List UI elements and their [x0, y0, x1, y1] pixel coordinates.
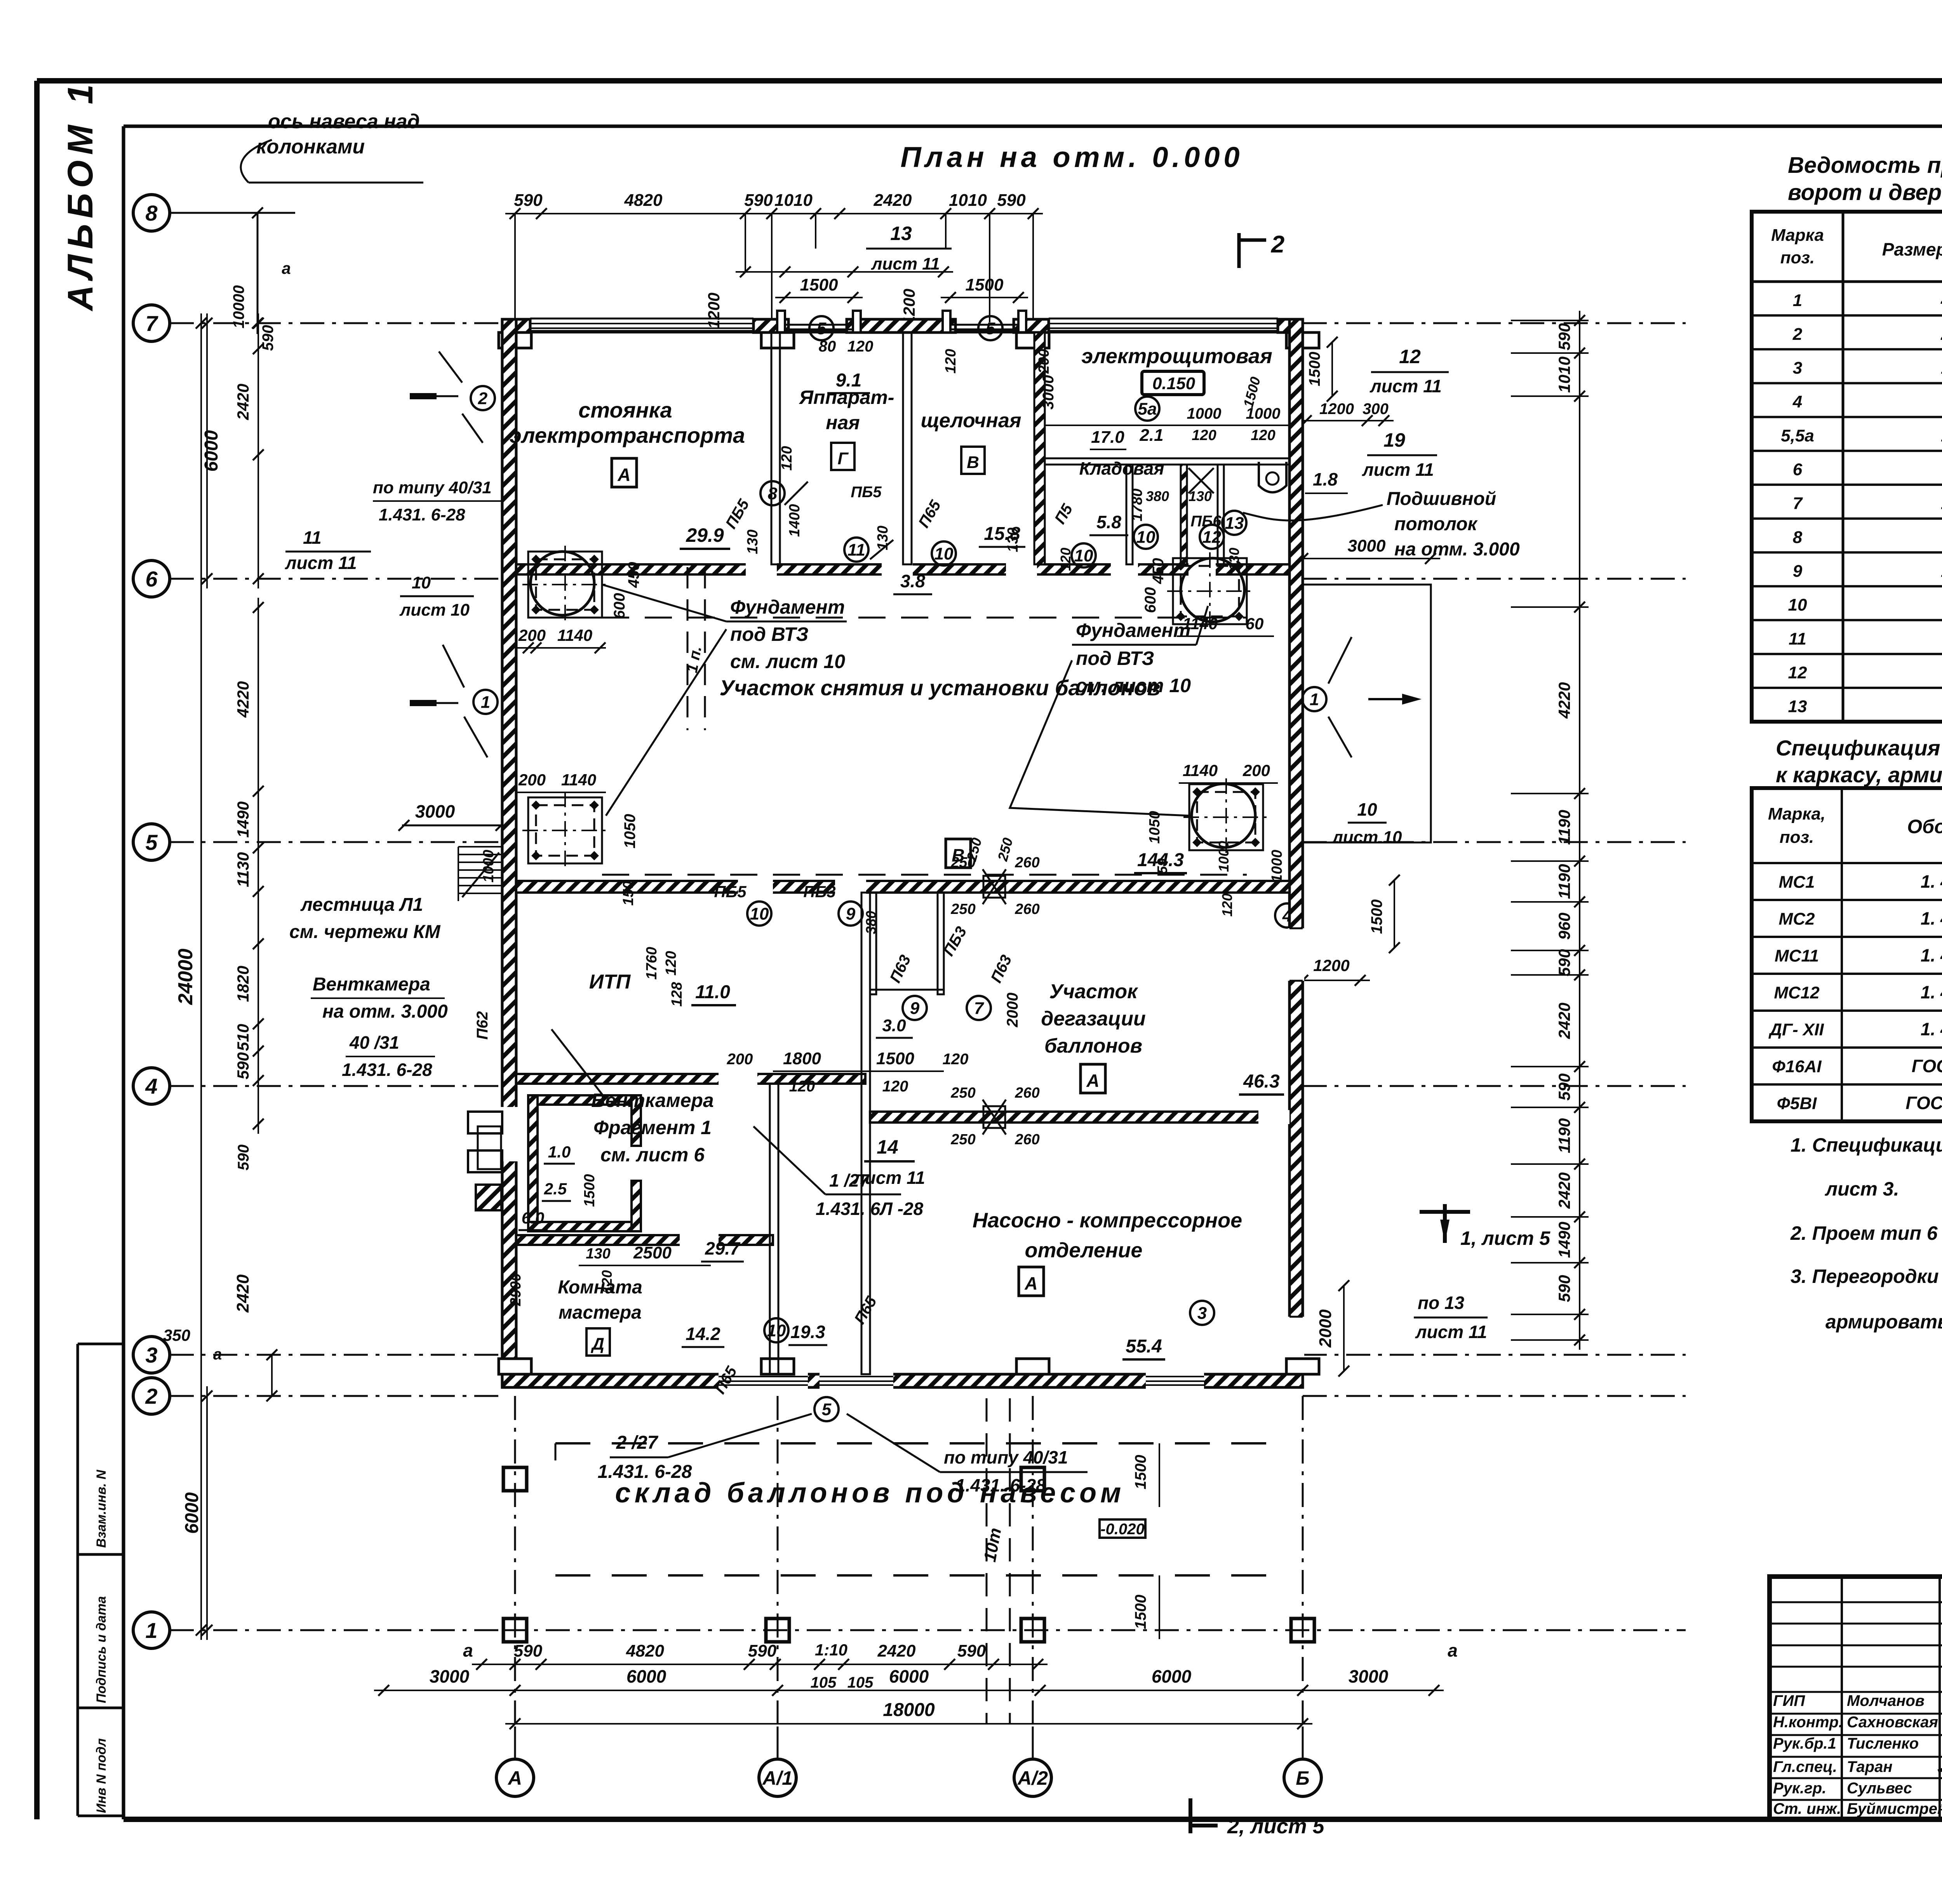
svg-text:13: 13: [1788, 697, 1807, 716]
svg-text:лист 3.: лист 3.: [1825, 1178, 1899, 1200]
svg-text:1. 431. 6 -28: 1. 431. 6 -28: [1921, 982, 1942, 1002]
svg-text:9: 9: [1793, 562, 1803, 581]
axis lines: [170, 212, 295, 214]
svg-text:450: 450: [1150, 558, 1167, 585]
svg-text:5: 5: [822, 1400, 832, 1419]
stairs outside: [458, 846, 502, 848]
svg-text:450: 450: [625, 562, 642, 588]
svg-text:лестница Л1: лестница Л1: [300, 895, 423, 915]
svg-text:120: 120: [1219, 893, 1235, 917]
svg-text:1.431. 6Л -28: 1.431. 6Л -28: [816, 1199, 924, 1219]
svg-text:2420 × 2400: 2420 × 2400: [1940, 325, 1942, 344]
svg-text:1010: 1010: [949, 191, 987, 210]
svg-text:1000: 1000: [1187, 405, 1222, 422]
svg-text:электрощитовая: электрощитовая: [1081, 345, 1272, 368]
svg-text:0.150: 0.150: [1152, 374, 1195, 393]
svg-text:Ст. инж.: Ст. инж.: [1773, 1800, 1841, 1817]
svg-text:см. лист 10: см. лист 10: [1076, 675, 1191, 696]
column marks degazatsiya: [983, 869, 1006, 904]
svg-text:дегазации: дегазации: [1041, 1008, 1146, 1030]
svg-text:380: 380: [1146, 488, 1169, 504]
svg-text:130: 130: [586, 1246, 610, 1262]
svg-text:-0.020: -0.020: [1100, 1521, 1144, 1538]
bottom wall gates: [719, 1373, 808, 1389]
svg-text:3000: 3000: [430, 1666, 470, 1686]
svg-text:отделение: отделение: [1025, 1239, 1143, 1262]
svg-text:ПБ5: ПБ5: [714, 882, 747, 901]
top wall gate portals: [777, 311, 785, 332]
svg-text:Буймистренко: Буймистренко: [1847, 1800, 1942, 1817]
table vedomost proemov grid: [1752, 212, 1942, 722]
svg-text:3: 3: [145, 1343, 157, 1367]
porch rects outside left wall: [468, 1112, 502, 1133]
svg-text:1130: 1130: [234, 852, 252, 887]
svg-text:4: 4: [145, 1074, 157, 1098]
svg-text:6000: 6000: [182, 1492, 202, 1534]
building bottom wall: [502, 1374, 1303, 1387]
svg-text:лист 11: лист 11: [1369, 376, 1442, 396]
svg-text:590: 590: [1555, 323, 1573, 350]
svg-text:1000: 1000: [1269, 850, 1285, 883]
bottom chain total: [505, 1723, 1312, 1725]
svg-text:5,5а: 5,5а: [1781, 426, 1814, 445]
svg-text:5: 5: [145, 830, 158, 855]
partition kladovaya walls: [1126, 465, 1133, 564]
svg-text:250: 250: [950, 1131, 975, 1148]
svg-text:3000: 3000: [1040, 375, 1057, 410]
crane axis: [986, 1398, 988, 1725]
svg-text:200: 200: [1242, 761, 1270, 780]
svg-text:2 /27: 2 /27: [616, 1432, 659, 1453]
svg-text:Марка,: Марка,: [1768, 804, 1825, 823]
svg-text:2500: 2500: [633, 1243, 672, 1262]
svg-text:3000: 3000: [415, 801, 455, 821]
svg-text:2: 2: [145, 1384, 157, 1408]
svg-text:мастера: мастера: [559, 1302, 642, 1323]
svg-text:Молчанов: Молчанов: [1847, 1692, 1925, 1709]
svg-text:поз.: поз.: [1780, 828, 1814, 847]
partition shchelochnaya right: [1034, 332, 1045, 564]
svg-text:1190: 1190: [1555, 810, 1573, 845]
svg-text:Венткамера: Венткамера: [591, 1089, 713, 1111]
svg-text:19: 19: [1383, 429, 1405, 451]
svg-text:Фундамент: Фундамент: [1076, 620, 1190, 641]
svg-text:2420: 2420: [233, 1274, 252, 1313]
svg-text:Сахновская: Сахновская: [1847, 1714, 1938, 1731]
svg-text:7: 7: [974, 999, 985, 1018]
svg-text:1:10: 1:10: [815, 1641, 847, 1659]
top chain: [505, 213, 1043, 214]
svg-text:2.1: 2.1: [1139, 426, 1163, 445]
svg-text:1140: 1140: [557, 626, 592, 644]
WC fixture: [1259, 462, 1286, 493]
axis row labels (left): [133, 195, 170, 231]
svg-text:4220: 4220: [1555, 682, 1573, 719]
svg-text:2. Проем тип 6 и перемычки: 2. Проем тип 6 и перемычки тип ПБ1, 4 см…: [1790, 1222, 1942, 1244]
svg-text:1: 1: [1793, 291, 1802, 310]
svg-text:1, лист 5: 1, лист 5: [1460, 1227, 1550, 1249]
svg-text:590: 590: [1555, 949, 1573, 976]
svg-text:3.8: 3.8: [900, 571, 925, 591]
svg-text:потолок: потолок: [1394, 514, 1478, 534]
svg-text:9: 9: [910, 999, 920, 1018]
svg-text:1050: 1050: [1147, 811, 1163, 844]
svg-text:4820: 4820: [626, 1641, 664, 1660]
interior wall komnata top: [516, 1235, 773, 1245]
svg-text:120: 120: [943, 349, 959, 373]
svg-text:ДГ- XII: ДГ- XII: [1768, 1020, 1824, 1039]
svg-text:4820: 4820: [624, 191, 663, 210]
svg-text:60: 60: [1246, 614, 1264, 633]
svg-text:130: 130: [1226, 548, 1242, 571]
svg-text:1.431. 6-28: 1.431. 6-28: [379, 505, 465, 524]
svg-text:по типу 40/31: по типу 40/31: [373, 478, 492, 497]
ventkamera inner walls: [528, 1095, 641, 1105]
svg-text:3: 3: [1197, 1304, 1207, 1323]
svg-text:1500: 1500: [581, 1174, 598, 1207]
svg-text:6000: 6000: [201, 430, 222, 472]
svg-text:В: В: [967, 453, 979, 472]
svg-text:130: 130: [875, 526, 891, 550]
svg-text:8: 8: [145, 201, 158, 225]
svg-text:см. лист 6: см. лист 6: [600, 1144, 705, 1166]
svg-text:4: 4: [1792, 392, 1802, 411]
title block frame: [1770, 1577, 1942, 1819]
svg-text:1500: 1500: [1132, 1595, 1149, 1629]
svg-text:128: 128: [669, 982, 685, 1006]
right chain stub lines: [1511, 320, 1589, 321]
svg-text:3.0: 3.0: [882, 1016, 906, 1035]
svg-text:590: 590: [235, 1145, 252, 1171]
svg-text:24000: 24000: [174, 949, 197, 1005]
mark A stoyanka: [612, 458, 637, 487]
svg-text:150: 150: [620, 881, 637, 905]
svg-text:300: 300: [1363, 400, 1389, 418]
svg-text:Г: Г: [837, 449, 849, 468]
svg-text:А: А: [507, 1767, 522, 1789]
svg-text:Н.контр.: Н.контр.: [1773, 1714, 1843, 1731]
svg-text:120: 120: [1251, 427, 1275, 444]
svg-text:2420: 2420: [1555, 1172, 1573, 1209]
svg-text:19.3: 19.3: [790, 1322, 825, 1342]
svg-text:590: 590: [744, 191, 773, 210]
svg-text:10: 10: [750, 904, 769, 923]
svg-text:2.5: 2.5: [544, 1180, 567, 1198]
svg-text:под ВТЗ: под ВТЗ: [1076, 647, 1154, 669]
svg-text:1: 1: [1310, 690, 1319, 709]
title block signature grid: [1841, 1577, 1843, 1819]
svg-text:590: 590: [748, 1641, 777, 1660]
svg-text:5.8: 5.8: [1096, 512, 1121, 532]
right chain: [1579, 311, 1580, 1350]
svg-text:10: 10: [767, 1321, 786, 1340]
svg-text:10: 10: [1136, 527, 1155, 546]
svg-text:200: 200: [1036, 349, 1052, 374]
svg-text:55.4: 55.4: [1126, 1336, 1162, 1357]
svg-text:8: 8: [1793, 528, 1803, 547]
svg-text:3000: 3000: [1348, 536, 1386, 555]
svg-text:10: 10: [934, 544, 954, 563]
svg-text:600: 600: [1142, 587, 1159, 613]
svg-text:баллонов: баллонов: [1044, 1035, 1142, 1057]
svg-text:2: 2: [1271, 231, 1284, 258]
svg-text:1500: 1500: [966, 275, 1004, 294]
svg-text:МС11: МС11: [1775, 947, 1819, 966]
svg-text:1500: 1500: [800, 275, 838, 294]
svg-text:по типу 40/31: по типу 40/31: [944, 1447, 1068, 1467]
svg-text:Гл.спец.: Гл.спец.: [1773, 1758, 1837, 1775]
interior wall electro bottom: [1045, 458, 1289, 465]
svg-text:11: 11: [303, 527, 322, 548]
svg-text:Обозначение: Обозначение: [1907, 816, 1942, 837]
outer border: [37, 78, 1942, 84]
svg-text:Подшивной: Подшивной: [1387, 489, 1496, 509]
svg-text:электротранспорта: электротранспорта: [510, 423, 745, 447]
svg-text:Таран: Таран: [1847, 1758, 1893, 1775]
svg-text:1010: 1010: [1555, 357, 1573, 393]
svg-text:2420: 2420: [234, 384, 252, 420]
svg-text:1000: 1000: [480, 850, 497, 883]
svg-text:120: 120: [882, 1078, 908, 1095]
svg-text:130: 130: [1189, 488, 1212, 504]
svg-text:200: 200: [518, 626, 546, 644]
svg-text:10: 10: [1074, 546, 1093, 565]
bottom axis circles: [496, 1759, 534, 1796]
vertical wall x1982: [770, 1084, 778, 1374]
svg-text:590: 590: [514, 191, 543, 210]
partition stoyanka right: [771, 332, 780, 564]
svg-text:260: 260: [1015, 1131, 1039, 1148]
svg-text:Размер проема в кладке: Размер проема в кладке: [1882, 239, 1942, 259]
svg-text:ГИП: ГИП: [1773, 1692, 1805, 1709]
section mark 1 list 5: [1420, 1210, 1470, 1214]
interior wall row1 bottom: [516, 564, 1289, 574]
svg-text:260: 260: [1015, 1085, 1039, 1101]
svg-text:Участок: Участок: [1049, 980, 1138, 1003]
svg-text:6: 6: [1793, 460, 1803, 479]
svg-text:Кладовая: Кладовая: [1079, 458, 1164, 479]
svg-text:29.9: 29.9: [686, 524, 724, 546]
svg-text:Ф5ВI: Ф5ВI: [1777, 1094, 1817, 1113]
svg-text:стоянка: стоянка: [578, 398, 672, 422]
canopy columns: [503, 1619, 527, 1642]
svg-text:ИТП: ИТП: [589, 971, 631, 993]
svg-text:1. 431. 6 -28: 1. 431. 6 -28: [1921, 1019, 1942, 1039]
svg-text:1200: 1200: [1319, 400, 1354, 418]
svg-text:11: 11: [1789, 629, 1806, 648]
svg-text:Д: Д: [590, 1335, 604, 1354]
svg-text:Ф16АI: Ф16АI: [1772, 1057, 1822, 1076]
svg-text:200: 200: [727, 1051, 753, 1068]
svg-text:на отм. 3.000: на отм. 3.000: [1394, 539, 1520, 560]
svg-text:колонками: колонками: [256, 136, 365, 158]
building top wall: [502, 330, 1303, 334]
svg-text:3. Перегородки толщиной 120: 3. Перегородки толщиной 120 мм, высотой …: [1791, 1265, 1942, 1287]
svg-text:960: 960: [1555, 912, 1573, 940]
vestibule walls: [870, 893, 876, 994]
left chain detailed: [258, 313, 259, 588]
bottom wall pilasters: [499, 1359, 531, 1374]
svg-text:8: 8: [768, 484, 778, 503]
svg-text:а: а: [1448, 1640, 1458, 1660]
svg-text:ПБ3: ПБ3: [803, 882, 835, 901]
svg-text:17.0: 17.0: [1091, 428, 1124, 447]
svg-text:под ВТЗ: под ВТЗ: [730, 623, 809, 645]
svg-text:250: 250: [950, 901, 975, 917]
svg-text:А/2: А/2: [1017, 1767, 1048, 1789]
svg-text:Сульвес: Сульвес: [1847, 1780, 1912, 1797]
svg-text:1800: 1800: [783, 1049, 821, 1068]
svg-text:5: 5: [817, 319, 827, 338]
svg-text:130: 130: [745, 529, 761, 554]
svg-text:лист 11: лист 11: [1415, 1322, 1487, 1342]
svg-text:12: 12: [1202, 527, 1222, 546]
svg-text:14: 14: [877, 1136, 898, 1158]
left wall gaps: [501, 1107, 518, 1161]
svg-text:1400: 1400: [787, 504, 803, 537]
svg-text:ворот и дверей: ворот и дверей: [1788, 180, 1942, 205]
svg-text:поз.: поз.: [1780, 248, 1815, 267]
svg-text:к каркасу, армирования пере: к каркасу, армирования перегородок: [1776, 762, 1942, 787]
canopy dashed outline: [555, 1442, 1274, 1445]
svg-text:2: 2: [478, 389, 488, 408]
svg-text:590: 590: [234, 1052, 252, 1079]
svg-text:2420: 2420: [874, 191, 912, 210]
level mark: [1100, 1519, 1145, 1538]
svg-text:3000: 3000: [1349, 1666, 1389, 1686]
section mark 2 bottom: [1189, 1798, 1192, 1833]
svg-text:А/1: А/1: [762, 1767, 793, 1789]
main vertical wall x2218: [861, 893, 870, 1374]
svg-text:6.0: 6.0: [522, 1209, 544, 1227]
svg-text:А: А: [617, 465, 630, 485]
podshivnoy potolok outline: [1303, 585, 1431, 842]
svg-text:510: 510: [234, 1024, 252, 1051]
svg-text:Тисленко: Тисленко: [1847, 1735, 1919, 1752]
svg-text:1190: 1190: [1555, 1118, 1573, 1153]
svg-text:1. Спецификации заполнения п: 1. Спецификации заполнения проемов и пер…: [1791, 1134, 1942, 1156]
svg-text:12: 12: [1788, 663, 1807, 682]
svg-text:по 13: по 13: [1418, 1293, 1465, 1313]
svg-text:11: 11: [847, 540, 865, 559]
door 3 annotation: [1190, 1301, 1214, 1325]
svg-text:105: 105: [847, 1674, 874, 1691]
svg-text:260: 260: [1015, 901, 1039, 917]
svg-text:лист 10: лист 10: [399, 600, 470, 620]
svg-text:см. чертежи КМ: см. чертежи КМ: [289, 922, 440, 942]
svg-text:1500: 1500: [1132, 1455, 1149, 1490]
svg-text:см. лист 10: см. лист 10: [730, 651, 845, 672]
ventkamera small details: [476, 1185, 501, 1210]
svg-text:10: 10: [1357, 799, 1377, 820]
svg-text:ГОСТ 2590-88: ГОСТ 2590-88: [1912, 1056, 1942, 1076]
svg-text:Комната: Комната: [558, 1277, 642, 1298]
spec table grid: [1752, 788, 1942, 1121]
svg-text:Фундамент: Фундамент: [730, 596, 845, 618]
svg-text:лист 11: лист 11: [285, 553, 357, 573]
svg-text:1000: 1000: [1216, 841, 1232, 872]
svg-text:ная: ная: [826, 412, 860, 433]
svg-text:590: 590: [514, 1641, 543, 1660]
bottom chain spans: [374, 1690, 1444, 1691]
svg-text:ГОСТ 6727- 80*: ГОСТ 6727- 80*: [1905, 1093, 1942, 1113]
svg-text:2000: 2000: [1004, 993, 1021, 1028]
svg-text:План на отм. 0.000: План на отм. 0.000: [900, 141, 1243, 173]
svg-text:29.7: 29.7: [705, 1238, 741, 1258]
svg-text:10: 10: [1788, 595, 1807, 614]
svg-text:40 /31: 40 /31: [349, 1032, 399, 1053]
svg-text:1.431. 6-28: 1.431. 6-28: [342, 1060, 432, 1080]
svg-text:Спецификация элементов кр: Спецификация элементов крепления перегор…: [1776, 736, 1942, 760]
section mark 2 top: [1237, 233, 1241, 268]
svg-text:2: 2: [1792, 325, 1803, 344]
door circles row3: [747, 902, 771, 926]
svg-text:П62: П62: [474, 1011, 491, 1039]
svg-text:а: а: [213, 1346, 222, 1363]
svg-text:на отм. 3.000: на отм. 3.000: [322, 1001, 448, 1022]
svg-text:1820: 1820: [234, 966, 252, 1002]
svg-text:590: 590: [259, 325, 277, 351]
svg-text:Подпись и дата: Подпись и дата: [94, 1596, 109, 1703]
svg-text:590: 590: [997, 191, 1026, 210]
svg-text:1140: 1140: [561, 771, 596, 789]
bottom chain detail: [472, 1664, 1048, 1665]
top wall pilasters: [499, 332, 531, 348]
svg-text:1780: 1780: [1129, 489, 1145, 522]
left chain 24000: [200, 313, 202, 1640]
svg-text:2420: 2420: [1555, 1002, 1573, 1039]
svg-text:120: 120: [943, 1051, 969, 1068]
svg-text:2900: 2900: [508, 1273, 524, 1307]
svg-text:1: 1: [145, 1618, 157, 1643]
svg-text:1.431. 6-28: 1.431. 6-28: [598, 1462, 692, 1482]
svg-text:1. 431. 6 -28: 1. 431. 6 -28: [1921, 872, 1942, 892]
inner frame: [124, 125, 1942, 128]
svg-text:7: 7: [1793, 494, 1803, 513]
svg-text:260: 260: [1015, 855, 1039, 871]
svg-text:120: 120: [663, 951, 679, 975]
conveyor dashed strip: [687, 567, 689, 730]
svg-text:АЛЬБОМ 1: АЛЬБОМ 1: [61, 79, 100, 312]
svg-text:1 /27: 1 /27: [829, 1170, 870, 1190]
svg-text:лист 10: лист 10: [1331, 828, 1402, 847]
svg-text:5а: 5а: [1138, 399, 1157, 418]
svg-text:4220: 4220: [234, 681, 252, 718]
svg-text:380: 380: [863, 911, 879, 934]
svg-text:МС12: МС12: [1774, 983, 1820, 1002]
svg-text:13: 13: [890, 223, 912, 244]
svg-text:1: 1: [481, 693, 490, 712]
svg-text:6: 6: [145, 567, 158, 591]
svg-text:200: 200: [518, 771, 546, 789]
svg-text:600: 600: [611, 593, 628, 619]
svg-text:Рук.гр.: Рук.гр.: [1773, 1780, 1826, 1797]
svg-text:а: а: [282, 259, 291, 277]
svg-text:3: 3: [1793, 359, 1802, 378]
svg-text:1.431. 6-28: 1.431. 6-28: [955, 1475, 1046, 1495]
svg-text:Инв N подл: Инв N подл: [94, 1738, 109, 1813]
svg-text:1140: 1140: [1183, 761, 1218, 780]
svg-text:590: 590: [1555, 1073, 1573, 1100]
svg-text:склад баллонов под навесо: склад баллонов под навесом: [615, 1478, 1125, 1509]
left stamp cells: [77, 1344, 79, 1816]
svg-text:10: 10: [412, 573, 431, 592]
svg-text:а: а: [463, 1640, 473, 1660]
svg-text:10000: 10000: [230, 285, 247, 328]
svg-text:2420: 2420: [877, 1641, 916, 1660]
svg-text:А: А: [1024, 1273, 1037, 1293]
svg-text:130: 130: [1005, 527, 1021, 552]
